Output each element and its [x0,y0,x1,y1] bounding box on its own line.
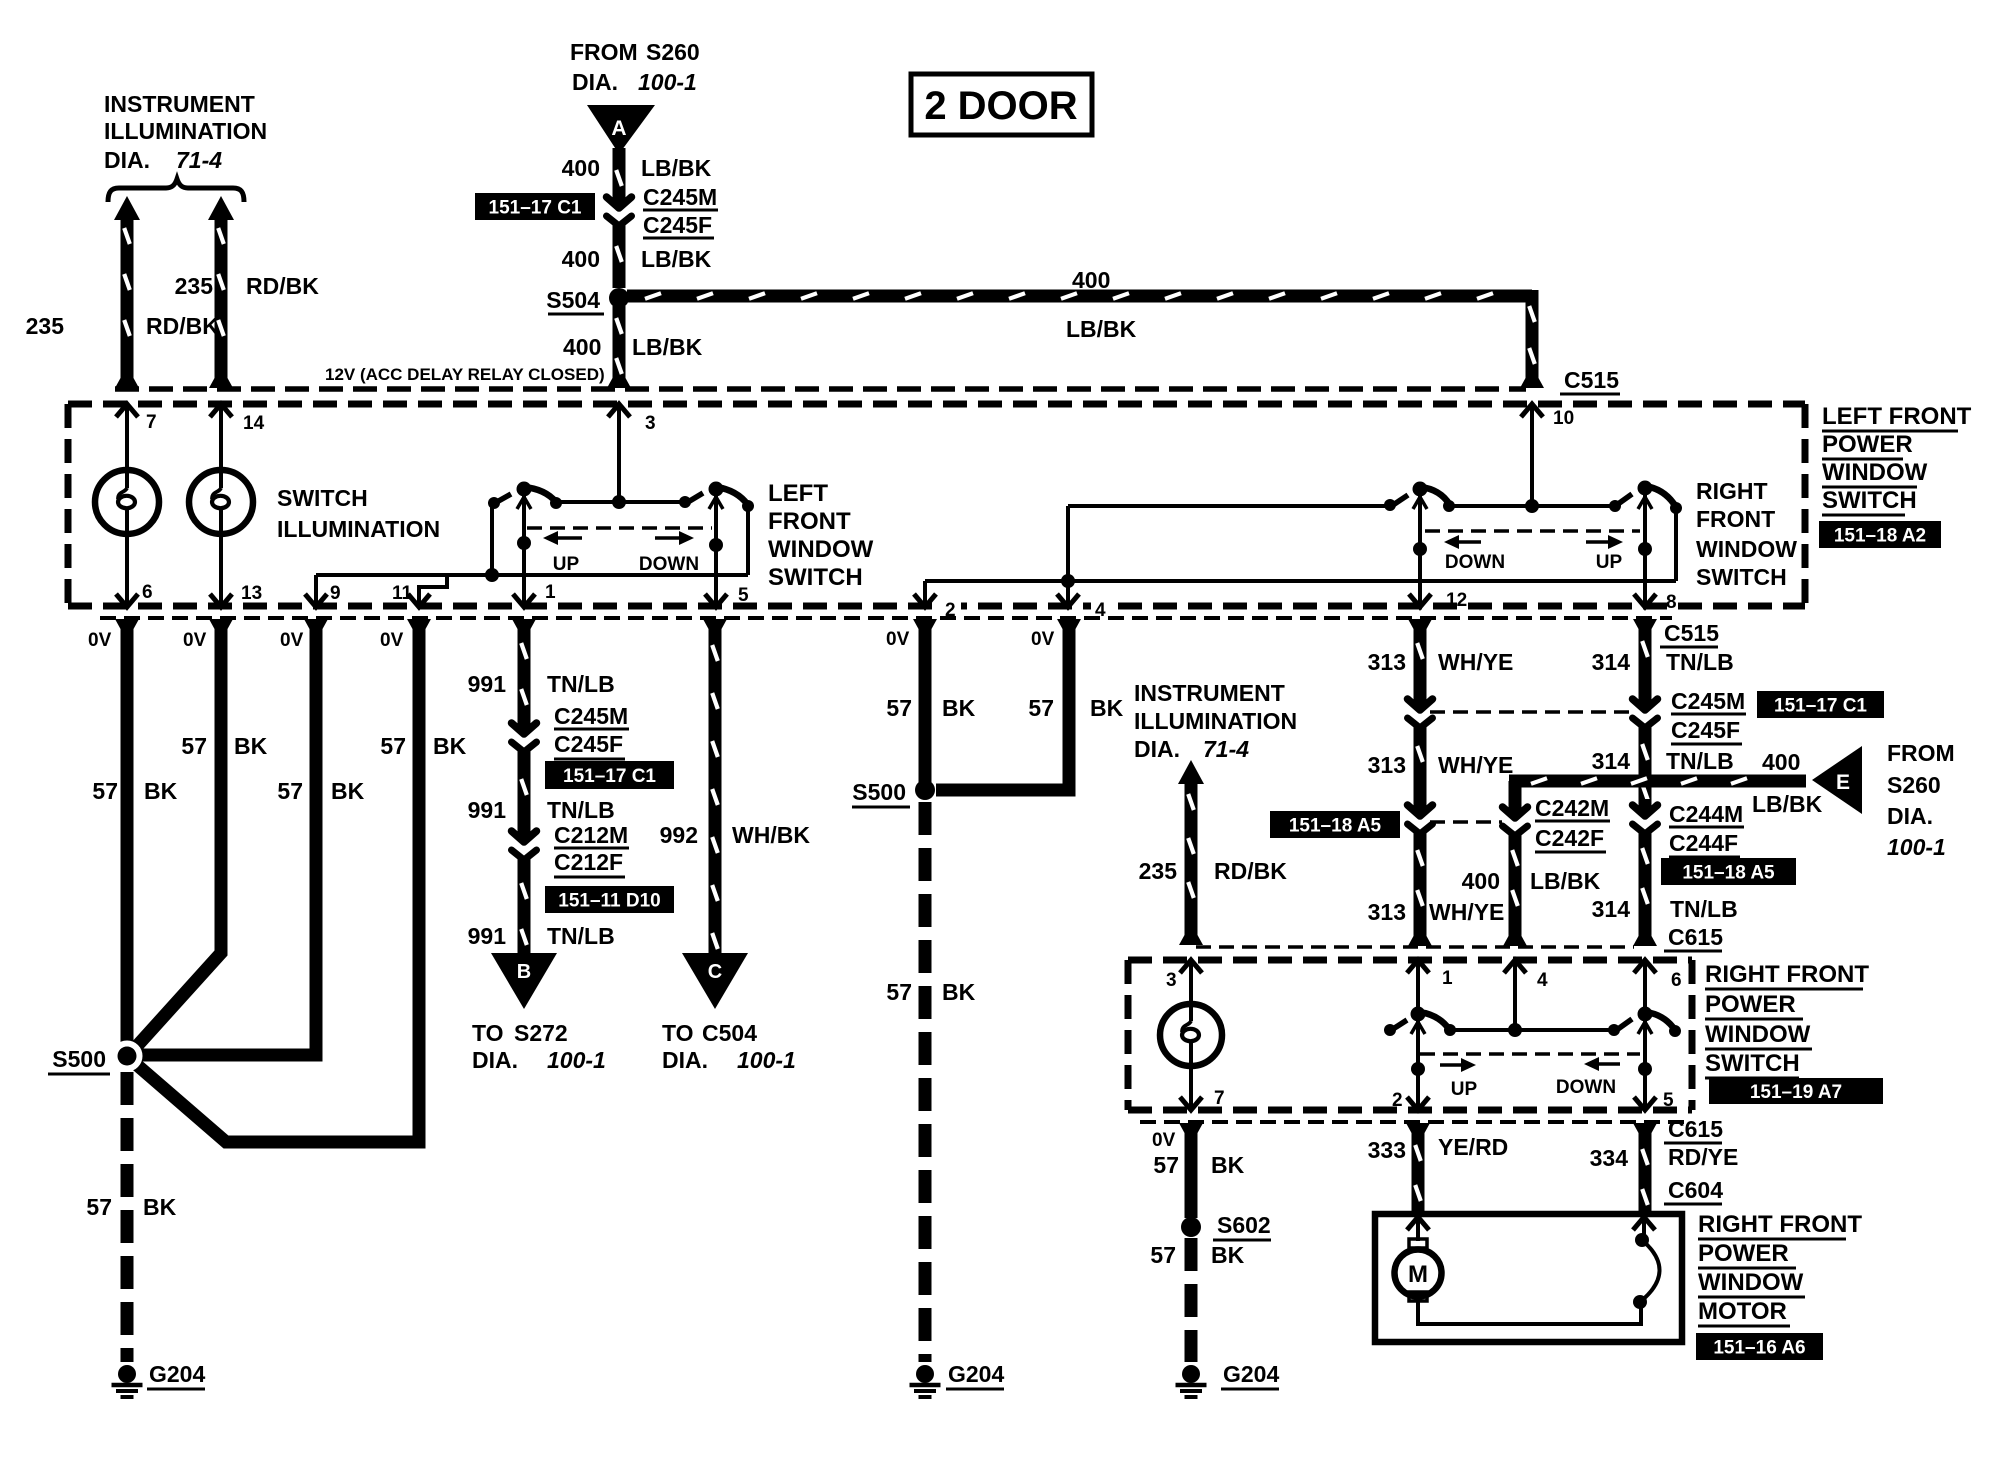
svg-text:UP: UP [553,554,580,575]
svg-text:0V: 0V [380,630,404,651]
svg-text:FROM: FROM [570,39,638,65]
svg-text:BK: BK [942,695,976,721]
svg-text:C244F: C244F [1669,830,1738,856]
svg-text:991: 991 [468,671,507,697]
svg-text:RD/BK: RD/BK [246,273,319,299]
svg-text:RD/BK: RD/BK [1214,858,1287,884]
svg-text:400: 400 [1462,868,1500,894]
svg-text:INSTRUMENT: INSTRUMENT [104,91,255,117]
svg-text:0V: 0V [1152,1130,1176,1151]
svg-text:A: A [611,117,626,140]
svg-text:TN/LB: TN/LB [1666,748,1734,774]
svg-text:0V: 0V [88,630,112,651]
svg-text:TN/LB: TN/LB [1670,896,1738,922]
svg-text:BK: BK [234,733,268,759]
svg-text:7: 7 [1214,1088,1225,1109]
svg-text:WH/BK: WH/BK [732,822,810,848]
svg-text:C245F: C245F [1671,717,1740,743]
svg-text:SWITCH: SWITCH [1822,487,1917,514]
svg-text:C245M: C245M [643,184,717,210]
svg-text:100-1: 100-1 [547,1047,606,1073]
svg-text:DIA.: DIA. [472,1047,518,1073]
svg-text:FROM: FROM [1887,740,1955,766]
svg-text:UP: UP [1451,1079,1478,1100]
svg-text:WH/YE: WH/YE [1429,899,1504,925]
svg-text:6: 6 [142,582,153,603]
svg-text:SWITCH: SWITCH [1696,564,1787,590]
svg-text:C245M: C245M [554,703,628,729]
svg-text:57: 57 [181,733,207,759]
svg-text:DIA.: DIA. [572,69,618,95]
svg-text:SWITCH: SWITCH [277,485,368,511]
svg-text:2: 2 [1392,1090,1403,1111]
svg-text:151–19 A7: 151–19 A7 [1750,1082,1842,1103]
svg-text:313: 313 [1368,752,1406,778]
svg-text:5: 5 [738,585,749,606]
svg-text:DOWN: DOWN [639,554,699,575]
svg-text:WINDOW: WINDOW [1822,459,1928,486]
svg-text:WINDOW: WINDOW [768,536,874,563]
svg-text:RD/BK: RD/BK [146,313,219,339]
svg-text:TO: TO [662,1020,694,1046]
svg-text:BK: BK [143,1194,177,1220]
svg-text:C242M: C242M [1535,795,1609,821]
svg-text:C615: C615 [1668,1116,1723,1142]
svg-text:333: 333 [1368,1137,1406,1163]
svg-text:BK: BK [433,733,467,759]
svg-text:YE/RD: YE/RD [1438,1134,1508,1160]
svg-text:C212M: C212M [554,822,628,848]
svg-text:BK: BK [1211,1152,1245,1178]
svg-text:313: 313 [1368,899,1406,925]
svg-text:57: 57 [886,695,912,721]
svg-text:71-4: 71-4 [176,147,222,173]
svg-text:LEFT FRONT: LEFT FRONT [1822,403,1972,430]
svg-text:151–17 C1: 151–17 C1 [489,198,582,219]
svg-text:S504: S504 [546,287,600,313]
svg-text:5: 5 [1663,1090,1674,1111]
svg-text:6: 6 [1671,970,1682,991]
svg-text:57: 57 [886,979,912,1005]
svg-text:BK: BK [144,778,178,804]
svg-text:991: 991 [468,923,507,949]
svg-text:S260: S260 [646,39,700,65]
svg-text:400: 400 [562,246,600,272]
svg-text:11: 11 [392,583,413,604]
svg-text:57: 57 [1150,1242,1176,1268]
svg-text:WH/YE: WH/YE [1438,649,1513,675]
svg-text:314: 314 [1592,649,1631,675]
svg-text:RIGHT FRONT: RIGHT FRONT [1705,961,1869,988]
svg-text:MOTOR: MOTOR [1698,1298,1787,1325]
svg-text:57: 57 [380,733,406,759]
svg-text:DIA.: DIA. [1134,736,1180,762]
svg-text:DIA.: DIA. [662,1047,708,1073]
svg-text:RIGHT: RIGHT [1696,478,1768,504]
svg-text:S272: S272 [514,1020,568,1046]
svg-text:400: 400 [1762,749,1800,775]
svg-text:POWER: POWER [1705,991,1796,1018]
svg-text:ILLUMINATION: ILLUMINATION [277,516,440,542]
svg-text:BK: BK [942,979,976,1005]
svg-text:S602: S602 [1217,1212,1271,1238]
svg-text:TN/LB: TN/LB [1666,649,1734,675]
svg-text:C245M: C245M [1671,688,1745,714]
svg-text:WINDOW: WINDOW [1698,1269,1804,1296]
svg-text:151–18 A2: 151–18 A2 [1834,526,1926,547]
svg-text:M: M [1408,1261,1428,1288]
svg-text:9: 9 [330,583,341,604]
svg-text:100-1: 100-1 [737,1047,796,1073]
svg-text:RIGHT FRONT: RIGHT FRONT [1698,1211,1862,1238]
svg-text:235: 235 [175,273,214,299]
svg-text:UP: UP [1596,552,1623,573]
svg-text:C515: C515 [1664,620,1719,646]
svg-text:S500: S500 [852,779,906,805]
svg-text:ILLUMINATION: ILLUMINATION [1134,708,1297,734]
svg-text:ILLUMINATION: ILLUMINATION [104,118,267,144]
svg-text:FRONT: FRONT [768,508,851,535]
svg-text:3: 3 [645,413,656,434]
svg-text:57: 57 [277,778,303,804]
svg-text:INSTRUMENT: INSTRUMENT [1134,680,1285,706]
svg-text:400: 400 [1072,267,1110,293]
svg-text:DIA.: DIA. [1887,803,1933,829]
svg-text:SWITCH: SWITCH [1705,1050,1800,1077]
svg-text:S500: S500 [52,1046,106,1072]
svg-text:1: 1 [1442,968,1453,989]
svg-text:151–11 D10: 151–11 D10 [558,891,661,912]
svg-text:12V (ACC DELAY RELAY CLOSED): 12V (ACC DELAY RELAY CLOSED) [325,365,605,384]
svg-text:C242F: C242F [1535,825,1604,851]
svg-text:G204: G204 [1223,1361,1279,1387]
svg-text:12: 12 [1446,590,1467,611]
svg-text:151–18 A5: 151–18 A5 [1682,863,1775,884]
svg-text:314: 314 [1592,748,1631,774]
svg-text:991: 991 [468,797,507,823]
svg-text:57: 57 [1153,1152,1179,1178]
svg-text:0V: 0V [280,630,304,651]
svg-text:151–17 C1: 151–17 C1 [1774,696,1867,717]
svg-text:334: 334 [1590,1145,1629,1171]
svg-text:151–17 C1: 151–17 C1 [563,766,656,787]
svg-text:LB/BK: LB/BK [1752,791,1823,817]
svg-text:57: 57 [92,778,118,804]
svg-text:71-4: 71-4 [1203,736,1249,762]
svg-text:400: 400 [562,155,600,181]
svg-text:10: 10 [1553,408,1574,429]
svg-text:C: C [708,961,722,983]
svg-text:BK: BK [331,778,365,804]
svg-text:WH/YE: WH/YE [1438,752,1513,778]
svg-text:992: 992 [660,822,698,848]
svg-text:BK: BK [1211,1242,1245,1268]
svg-text:0V: 0V [183,630,207,651]
svg-text:TN/LB: TN/LB [547,671,615,697]
svg-text:1: 1 [545,582,556,603]
svg-text:B: B [517,961,531,983]
svg-text:C615: C615 [1668,924,1723,950]
svg-text:235: 235 [26,313,65,339]
svg-text:2 DOOR: 2 DOOR [924,84,1077,128]
svg-text:LB/BK: LB/BK [1530,868,1601,894]
svg-text:WINDOW: WINDOW [1696,536,1797,562]
svg-text:LB/BK: LB/BK [641,155,712,181]
svg-text:G204: G204 [948,1361,1004,1387]
svg-text:POWER: POWER [1698,1240,1789,1267]
svg-text:BK: BK [1090,695,1124,721]
svg-text:RD/YE: RD/YE [1668,1144,1738,1170]
svg-text:DIA.: DIA. [104,147,150,173]
svg-text:S260: S260 [1887,772,1941,798]
svg-text:14: 14 [243,413,265,434]
svg-text:TN/LB: TN/LB [547,797,615,823]
svg-text:LB/BK: LB/BK [632,334,703,360]
svg-text:8: 8 [1666,592,1677,613]
svg-text:G204: G204 [149,1361,205,1387]
svg-text:C504: C504 [702,1020,757,1046]
svg-text:151–16 A6: 151–16 A6 [1713,1338,1805,1359]
svg-text:4: 4 [1537,970,1548,991]
svg-text:235: 235 [1139,858,1178,884]
svg-text:C515: C515 [1564,367,1619,393]
svg-text:57: 57 [86,1194,112,1220]
svg-text:3: 3 [1166,970,1177,991]
svg-text:TO: TO [472,1020,504,1046]
svg-text:0V: 0V [886,629,910,650]
svg-text:0V: 0V [1031,629,1055,650]
svg-text:313: 313 [1368,649,1406,675]
svg-text:C604: C604 [1668,1177,1723,1203]
svg-text:LEFT: LEFT [768,480,828,507]
svg-text:TN/LB: TN/LB [547,923,615,949]
svg-text:SWITCH: SWITCH [768,564,863,591]
svg-text:C244M: C244M [1669,801,1743,827]
svg-text:LB/BK: LB/BK [641,246,712,272]
svg-text:314: 314 [1592,896,1631,922]
svg-text:LB/BK: LB/BK [1066,316,1137,342]
svg-text:C245F: C245F [554,731,623,757]
svg-text:7: 7 [146,412,157,433]
svg-text:57: 57 [1028,695,1054,721]
svg-text:WINDOW: WINDOW [1705,1021,1811,1048]
svg-text:FRONT: FRONT [1696,506,1775,532]
svg-text:DOWN: DOWN [1445,552,1505,573]
svg-text:C212F: C212F [554,849,623,875]
svg-text:13: 13 [241,583,262,604]
svg-text:E: E [1836,771,1850,794]
svg-text:100-1: 100-1 [1887,834,1946,860]
svg-text:400: 400 [563,334,601,360]
svg-text:C245F: C245F [643,212,712,238]
svg-text:POWER: POWER [1822,431,1913,458]
svg-text:DOWN: DOWN [1556,1077,1616,1098]
svg-text:100-1: 100-1 [638,69,697,95]
svg-text:151–18 A5: 151–18 A5 [1289,816,1382,837]
